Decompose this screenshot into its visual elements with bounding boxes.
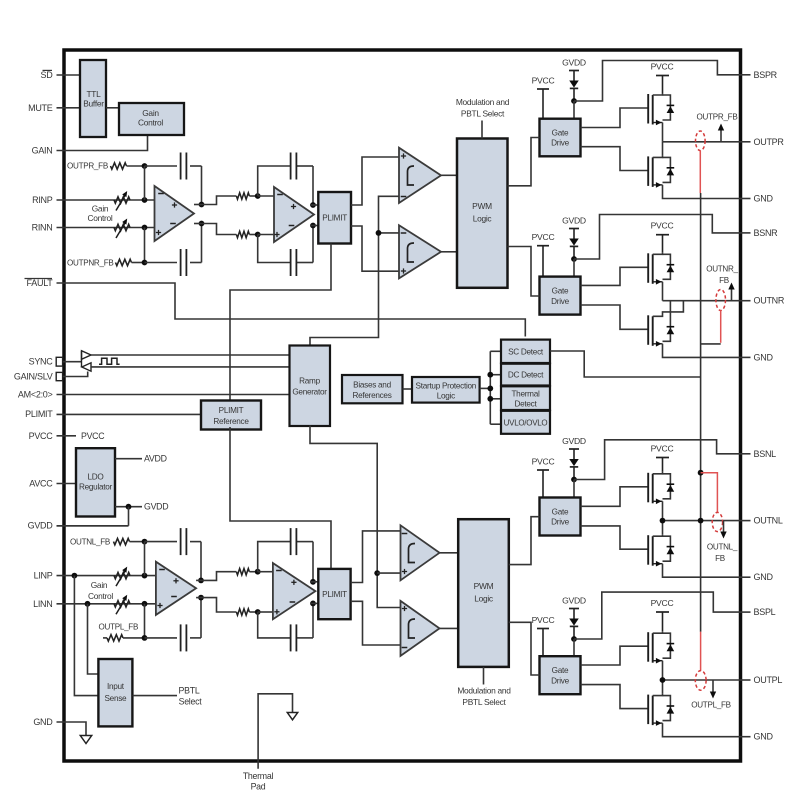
node LINP branch (72, 573, 78, 579)
svg-text:Ramp: Ramp (299, 377, 320, 386)
wire PLIMIT R to comparator 2 (351, 226, 399, 271)
node GD3 switching (660, 518, 666, 524)
Gain Control block (119, 103, 184, 135)
svg-text:PBTL: PBTL (179, 686, 200, 696)
svg-text:Thermal: Thermal (511, 389, 540, 398)
wire PBTL select (132, 695, 177, 697)
node OUTNL bus junction (698, 518, 704, 524)
node detect thermal (487, 396, 493, 402)
wire feedback cap L1 bottom (145, 637, 178, 639)
wire feedback cap R2 top (258, 166, 290, 196)
wire PLIMIT R to comparator 1 (351, 157, 399, 205)
wire GD1 high source to node (662, 123, 664, 142)
wire U1R out bottom to R2 (202, 224, 237, 235)
svg-text:Select: Select (179, 697, 203, 707)
wire GD2 low source to GND (663, 344, 741, 358)
wire SLV to ramp generator (91, 366, 290, 368)
wire modulation stub R (481, 121, 483, 139)
arrow OUTPR_FB (720, 129, 722, 142)
svg-text:OUTPL: OUTPL (754, 675, 783, 685)
resistor OUTNL_FB (114, 538, 130, 544)
wire GD3 low source to GND (663, 564, 741, 578)
variable resistor LINP gain (114, 572, 130, 578)
red wire OUTNR sense (720, 311, 722, 343)
pin OUTPL right y=680 (740, 679, 751, 681)
svg-text:UVLO/OVLO: UVLO/OVLO (504, 418, 548, 427)
node second stage bottom (255, 232, 261, 238)
node OUTNL red branch (698, 470, 704, 476)
SC Detect block (501, 340, 550, 363)
wire CMP2 to PWM (441, 251, 457, 253)
svg-text:Input: Input (107, 682, 125, 691)
node U1R output top (199, 202, 205, 208)
wire gate drive GD4 high gate (581, 646, 649, 665)
pin GND right y=736.7 (740, 736, 751, 738)
svg-text:Control: Control (88, 591, 113, 601)
svg-text:OUTPR_FB: OUTPR_FB (697, 112, 738, 121)
resistor L2 top (236, 569, 249, 575)
wire GD3 output node (663, 520, 741, 522)
pin GND right y=198.5 (740, 198, 751, 200)
Startup Protection Logic block (412, 377, 480, 403)
svg-text:Gate: Gate (552, 666, 569, 675)
wire SYNC to ramp generator (91, 354, 290, 356)
resistor OUTPL_FB (107, 635, 123, 641)
transistor QGD3L low side (647, 535, 649, 565)
svg-text:PLIMIT: PLIMIT (219, 406, 244, 415)
wire GD3 bootstrap (574, 440, 740, 480)
node ramp L (374, 570, 380, 576)
pin BSPL right y=612.1 (740, 611, 751, 613)
pin GND right y=357.4 (740, 356, 751, 358)
svg-text:PLIMIT: PLIMIT (25, 409, 53, 419)
wire GD3 GVDD to gate drive (573, 480, 575, 498)
pin BSNR right y=232.9 (740, 232, 751, 234)
UVLO/OVLO block (501, 411, 550, 434)
transistor QGD1L low side (647, 156, 649, 186)
svg-text:AM<2:0>: AM<2:0> (18, 390, 53, 400)
svg-text:OUTNL_: OUTNL_ (707, 542, 738, 551)
node GD3 GVDD junction (571, 477, 577, 483)
svg-text:Reference: Reference (213, 417, 249, 426)
node GVDD (126, 504, 132, 510)
comparator CMP4 (401, 601, 440, 656)
svg-text:GVDD: GVDD (562, 216, 586, 226)
svg-text:PVCC: PVCC (651, 598, 674, 608)
bus vertical sense (700, 193, 702, 632)
svg-text:SYNC: SYNC (29, 357, 54, 367)
wire GVDD to pin (128, 507, 130, 526)
node U2L output top (310, 579, 316, 585)
svg-text:PVCC: PVCC (651, 444, 674, 454)
svg-text:PBTL Select: PBTL Select (461, 108, 505, 118)
svg-text:Buffer: Buffer (83, 99, 104, 109)
svg-text:OUTNL: OUTNL (754, 516, 783, 526)
svg-text:Logic: Logic (473, 214, 492, 224)
svg-text:Drive: Drive (551, 139, 569, 148)
svg-text:Modulation and: Modulation and (456, 97, 510, 107)
svg-text:Drive: Drive (551, 676, 569, 685)
wire LINP to input sense (74, 576, 98, 696)
wire TTL to Gain Control (106, 107, 119, 109)
svg-text:Drive: Drive (551, 518, 569, 527)
svg-text:OUTPNR_FB: OUTPNR_FB (67, 258, 114, 267)
Gate Drive block GD3 (540, 498, 581, 536)
Input Sense block (98, 659, 132, 726)
svg-text:PVCC: PVCC (81, 431, 105, 441)
wire GD4 output node (663, 679, 741, 681)
wire biases to startup (403, 388, 413, 390)
PLIMIT Reference block (201, 401, 261, 430)
node OUTPR_FB (142, 163, 148, 169)
wire FAULT to SC Detect (57, 283, 526, 337)
PLIMIT block R (318, 192, 351, 244)
svg-text:FAULT: FAULT (27, 278, 54, 288)
sync squarewave glyph (99, 358, 120, 364)
svg-text:OUTPL_FB: OUTPL_FB (99, 623, 139, 632)
svg-text:OUTPR: OUTPR (754, 137, 785, 147)
wire GD4 GVDD to gate drive (573, 639, 575, 656)
LDO Regulator block (76, 448, 115, 516)
node LINN (142, 601, 148, 607)
svg-text:AVCC: AVCC (29, 479, 53, 489)
svg-text:SD: SD (41, 70, 54, 80)
wire U1L out top to R2 (201, 572, 236, 581)
svg-text:BSPR: BSPR (754, 70, 778, 80)
svg-text:GVDD: GVDD (28, 521, 54, 531)
svg-text:OUTPR_FB: OUTPR_FB (67, 162, 108, 171)
wire GD2 GVDD to gate drive (573, 259, 575, 277)
svg-text:Gain: Gain (142, 108, 159, 118)
capacitor C R1 bottom (180, 249, 182, 276)
wire GD4 node to low drain (662, 680, 664, 694)
wire GVDD out (115, 506, 142, 508)
node RINP (142, 197, 148, 203)
svg-text:BSNL: BSNL (754, 449, 777, 459)
pin BSNL right y=453.8 (740, 453, 751, 455)
svg-text:Gate: Gate (552, 507, 569, 516)
wire feedback cap L2 bottom (258, 612, 290, 638)
svg-text:OUTNL_FB: OUTNL_FB (70, 538, 110, 547)
node U1L output bottom (198, 595, 204, 601)
variable resistor LINN gain (114, 601, 130, 607)
svg-text:PLIMIT: PLIMIT (322, 590, 347, 599)
wire U1R out top to R2 (202, 196, 237, 205)
svg-text:BSPL: BSPL (754, 607, 776, 617)
wire PLIMIT L to comparator 3 (351, 531, 401, 583)
svg-text:GND: GND (754, 352, 774, 362)
svg-text:PLIMIT: PLIMIT (322, 214, 347, 223)
wire GD1 bootstrap (574, 61, 740, 102)
svg-text:GVDD: GVDD (562, 596, 586, 606)
variable resistor RINP gain (114, 197, 130, 203)
capacitor C L2 top (290, 528, 292, 555)
svg-text:GAIN/SLV: GAIN/SLV (14, 372, 53, 382)
capacitor C L1 bottom (180, 624, 182, 651)
node U2R output top (310, 202, 316, 208)
red sense ellipse OUTNL (712, 512, 722, 531)
wire ramp generator bottom stub (310, 425, 401, 607)
thermal pad wire (258, 694, 292, 769)
node OUTNL_FB (142, 539, 148, 545)
wire GD1 GVDD to gate drive (573, 101, 575, 119)
wire gate drive GD3 high gate (581, 487, 649, 507)
svg-text:PWM: PWM (472, 201, 492, 211)
wire GD4 bootstrap (574, 592, 740, 639)
svg-text:PBTL Select: PBTL Select (462, 697, 506, 707)
svg-text:LDO: LDO (88, 473, 104, 482)
wire GD2 output node (663, 300, 741, 302)
svg-text:Startup Protection: Startup Protection (416, 382, 477, 391)
svg-text:LINP: LINP (34, 571, 53, 581)
pin BSPR right y=74.8 (740, 74, 751, 76)
transistor QGD4H high side (647, 632, 649, 662)
wire PWM to gate drive GD1 (508, 138, 540, 186)
wire PWM to gate drive GD2 (508, 247, 540, 297)
transistor QGD2L low side (647, 315, 649, 345)
wire GD4 low source to GND (663, 723, 741, 737)
svg-text:GVDD: GVDD (562, 58, 586, 68)
PWM Logic block R (457, 139, 508, 288)
svg-text:PVCC: PVCC (651, 62, 674, 72)
svg-text:Logic: Logic (437, 392, 455, 401)
node detect startup (487, 386, 493, 392)
red sense ellipse OUTPL (695, 671, 706, 691)
node U2R output bottom (310, 223, 316, 229)
wire gate drive GD4 low gate (581, 685, 649, 709)
svg-text:RINP: RINP (32, 195, 53, 205)
variable resistor RINN gain (114, 224, 130, 230)
wire CMP3 to PWM L (440, 552, 459, 554)
wire GD2 high source to node (662, 282, 664, 301)
wire GD3 high source to node (662, 501, 664, 520)
thermal pad ground arrow (287, 713, 297, 720)
Gate Drive block GD4 (540, 656, 581, 694)
svg-text:OUTNR: OUTNR (754, 296, 785, 306)
svg-text:BSNR: BSNR (754, 228, 779, 238)
svg-text:Gate: Gate (552, 128, 569, 137)
wire PLIMIT L to comparator 4 (351, 601, 401, 645)
resistor R2 bottom (236, 231, 249, 237)
node OUTPL_FB (142, 635, 148, 641)
wire feedback cap R1 top (145, 165, 178, 167)
svg-text:Logic: Logic (474, 594, 493, 604)
node detect DC (487, 372, 493, 378)
pin GND right y=577.2 (740, 576, 751, 578)
red wire OUTPL sense (700, 632, 702, 671)
svg-text:Regulator: Regulator (79, 483, 113, 492)
wire GD3 node to low drain (662, 521, 664, 535)
op-amp U1R input amplifier (155, 186, 195, 241)
resistor L2 bottom (236, 609, 249, 615)
node ramp R (376, 230, 382, 236)
svg-text:PVCC: PVCC (532, 76, 555, 86)
capacitor C L2 bottom (290, 624, 292, 651)
node RINN (142, 225, 148, 231)
resistor OUTPNR_FB (116, 259, 132, 265)
wire GAIN/SLV jog (63, 372, 88, 377)
pin OUTPR right y=141.8 (740, 141, 751, 143)
wire gate drive GD2 high gate (581, 267, 649, 285)
resistor R2 top (236, 193, 249, 199)
wire GD2 bootstrap (574, 215, 740, 260)
svg-text:Control: Control (138, 118, 163, 128)
svg-text:SC Detect: SC Detect (508, 347, 544, 356)
red sense ellipse OUTNR (716, 290, 726, 311)
ground symbol (80, 736, 91, 744)
wire modulation stub L (483, 667, 485, 685)
wire feedback cap R2 bottom (258, 235, 290, 263)
wire startup to detect bus (480, 387, 491, 389)
svg-text:PWM: PWM (474, 581, 494, 591)
comparator CMP1 (399, 148, 441, 203)
svg-text:Detect: Detect (515, 399, 538, 408)
node L second stage bottom (255, 609, 261, 615)
wire gate drive GD2 low gate (581, 305, 649, 329)
svg-text:DC Detect: DC Detect (508, 371, 544, 380)
svg-text:RINN: RINN (32, 223, 53, 233)
svg-text:FB: FB (719, 276, 729, 285)
node GD4 switching (660, 677, 666, 683)
wire PLIMIT R to PLIMIT reference (230, 244, 331, 404)
capacitor C L1 top (180, 528, 182, 555)
svg-text:GVDD: GVDD (562, 436, 586, 446)
node L second stage top (255, 569, 261, 575)
svg-text:LINN: LINN (33, 599, 52, 609)
capacitor C R2 top (290, 153, 292, 180)
wire feedback cap R1 bottom (145, 262, 178, 264)
TTL Buffer block (80, 60, 106, 137)
wire AVDD (115, 458, 142, 460)
svg-text:Gate: Gate (552, 286, 569, 295)
PWM Logic block L (458, 519, 509, 667)
DC Detect block (501, 364, 550, 386)
wire OUTNR sense join (701, 343, 721, 345)
op-amp U1L input amplifier (156, 562, 196, 615)
svg-text:PVCC: PVCC (29, 431, 54, 441)
wire LINN to input sense (88, 604, 99, 674)
node U1R output bottom (199, 221, 205, 227)
node GD2 GVDD junction (571, 256, 577, 262)
comparator CMP3 (401, 525, 440, 580)
wire GD1 output node (663, 141, 741, 143)
svg-text:Gain: Gain (92, 204, 109, 214)
svg-text:Drive: Drive (551, 297, 569, 306)
resistor OUTPR_FB (111, 163, 127, 169)
op-amp U2L second stage (273, 563, 316, 619)
svg-text:GND: GND (33, 717, 53, 727)
arrow OUTPL_FB (712, 680, 714, 694)
arrow OUTNL_FB (723, 521, 725, 534)
svg-text:GVDD: GVDD (144, 502, 168, 512)
sync buffers (63, 361, 82, 363)
wire gate drive GD1 low gate (581, 147, 649, 171)
capacitor C R1 top (180, 153, 182, 180)
node LINP (142, 573, 148, 579)
wire ramp to comparators R (310, 196, 399, 346)
transistor QGD1H high side (647, 94, 649, 124)
wire GD4 high source to node (662, 661, 664, 680)
wire U1L out bottom to R2 (201, 598, 236, 612)
wire feedback cap L2 top (258, 542, 290, 572)
svg-text:References: References (352, 391, 391, 400)
wire GD1 low source to GND (663, 185, 741, 199)
transistor QGD3H high side (647, 473, 649, 503)
svg-text:Sense: Sense (104, 694, 127, 703)
svg-text:Modulation and: Modulation and (457, 686, 511, 696)
svg-text:GND: GND (754, 194, 774, 204)
node LINN branch (85, 601, 91, 607)
PLIMIT block L (318, 569, 350, 619)
transistor QGD4L low side (647, 695, 649, 725)
wire PWM to gate drive GD3 (509, 517, 540, 565)
wire feedback cap L1 top (145, 541, 178, 543)
pin OUTNR right y=300.7 (740, 300, 751, 302)
comparator CMP2 (399, 225, 441, 278)
pin OUTNL right y=520.6 (740, 520, 751, 522)
svg-text:MUTE: MUTE (28, 103, 53, 113)
svg-text:OUTNR_: OUTNR_ (706, 264, 738, 273)
wire gate drive GD3 low gate (581, 526, 649, 549)
Ramp Generator block (290, 346, 331, 427)
node second stage top (255, 193, 261, 199)
svg-text:PVCC: PVCC (532, 232, 555, 242)
svg-text:Pad: Pad (251, 782, 266, 792)
wire GD1 node to low drain (662, 142, 664, 156)
wire PWM to gate drive GD4 (509, 622, 540, 675)
svg-text:Thermal: Thermal (243, 771, 274, 781)
svg-text:Biases and: Biases and (353, 381, 391, 390)
wire gate drive GD1 high gate (581, 108, 649, 128)
svg-text:OUTPL_FB: OUTPL_FB (691, 701, 731, 710)
svg-text:FB: FB (715, 554, 725, 563)
device outline (64, 50, 741, 761)
capacitor C R2 bottom (290, 249, 292, 276)
svg-text:GND: GND (754, 732, 774, 742)
Gate Drive block GD2 (540, 277, 581, 315)
node OUTPNR_FB (142, 260, 148, 266)
Thermal Detect block (501, 386, 550, 410)
svg-text:Control: Control (87, 213, 112, 223)
wire PLIMIT reference to PLIMIT L (230, 427, 331, 569)
node GD1 GVDD junction (571, 98, 577, 104)
svg-text:PVCC: PVCC (532, 615, 555, 625)
svg-text:GND: GND (754, 572, 774, 582)
svg-text:PVCC: PVCC (651, 221, 674, 231)
svg-text:Gain: Gain (91, 580, 108, 590)
svg-text:PVCC: PVCC (532, 457, 555, 467)
node GD4 GVDD junction (571, 636, 577, 642)
wire CMP1 to PWM (441, 174, 457, 176)
detect bus vertical (489, 351, 491, 424)
svg-text:AVDD: AVDD (144, 454, 167, 464)
arrow OUTNR_FB (731, 288, 733, 301)
transistor QGD2H high side (647, 253, 649, 282)
red sense ellipse OUTPR (696, 131, 706, 151)
Biases and References block (342, 375, 403, 403)
svg-text:Generator: Generator (292, 388, 327, 397)
red wire OUTPR sense (699, 151, 701, 193)
wire SC detect to bus (550, 351, 701, 377)
wire CMP4 to PWM L (440, 627, 459, 629)
Gate Drive block GD1 (540, 119, 581, 157)
node U1L output top (198, 578, 204, 584)
svg-text:TTL: TTL (86, 89, 101, 99)
node U2L output bottom (310, 601, 316, 607)
red wire OUTNL sense (701, 473, 718, 513)
op-amp U2R second stage (274, 187, 314, 242)
svg-text:GAIN: GAIN (32, 146, 53, 156)
